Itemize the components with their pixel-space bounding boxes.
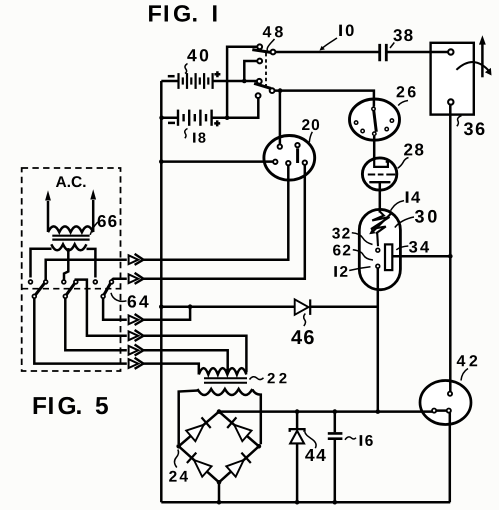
label 48 — [263, 26, 283, 50]
connector arrow 3 — [129, 315, 139, 324]
transformer 22 primary winding — [199, 368, 247, 374]
wire bridge 24 output line to socket 42 left pin — [219, 410, 432, 413]
wire tube 30 anode 34 to right rail — [392, 255, 450, 258]
wire switch 1 pivot to connector 6 — [34, 299, 127, 364]
box 36 vertical double arrow — [479, 35, 486, 77]
electrode 12 (circle) — [376, 264, 380, 268]
label 16 — [345, 435, 373, 446]
wire secondary right end to switch 3 contact — [87, 249, 96, 278]
filament 14 zigzag with arrow — [371, 212, 391, 247]
socket 42 body — [420, 381, 471, 425]
label A.C. — [56, 176, 86, 187]
switch bank 64 pivots — [32, 294, 105, 298]
socket 42 pins — [432, 392, 452, 413]
label 62 — [333, 245, 373, 260]
transformer 22 core — [204, 378, 247, 383]
connector arrow 5 — [129, 346, 139, 355]
transformer 66 primary winding — [48, 226, 93, 232]
rotary switch 26 lever — [374, 110, 377, 132]
wire switch 3 pivot to connector 3 — [103, 299, 127, 320]
FIG 5 dashed enclosure — [22, 168, 121, 371]
wire capacitor 38 to box 36 top pin — [387, 51, 447, 54]
tube 28 plate — [374, 157, 388, 167]
label 20 — [302, 119, 319, 142]
label 36 — [457, 116, 485, 136]
wire secondary left end to switch contact — [31, 249, 52, 278]
connector arrow 1 — [129, 255, 139, 264]
tube 28 grid (dashed) — [368, 174, 396, 176]
wire socket 42 left-center pin link — [435, 409, 448, 412]
label 34 — [396, 241, 429, 253]
box 36 body — [431, 43, 474, 115]
connector arrow 4 — [129, 331, 139, 340]
wire battery 18 right lead up to switch 48 lower throw contact — [212, 98, 259, 118]
wire switch 48 lower pole to rotary switch 26 top pin — [274, 91, 374, 107]
wire battery 18 left lead — [161, 116, 178, 119]
title FIG. 1 — [149, 5, 216, 22]
label 26 — [397, 86, 416, 105]
wire connector 4 to transformer 22 primary right end — [143, 336, 246, 373]
wire zener 44 top lead — [296, 412, 299, 429]
box 36 bottom pin — [448, 99, 453, 104]
wire connector 5 to transformer 22 primary tap — [143, 350, 227, 371]
bridge 24 diode lower-left — [194, 460, 212, 477]
tube 28 cathode — [369, 181, 390, 183]
wire connector 6 to transformer 22 primary left end — [143, 364, 198, 375]
wire 10 from switch 48 to capacitor 38 — [275, 51, 378, 54]
label 12 — [334, 266, 370, 277]
capacitor 16 — [328, 433, 343, 438]
label 42 — [457, 355, 477, 380]
transformer 22 secondary winding — [197, 389, 252, 395]
wire connector 3 riser to diode 46 line — [143, 307, 190, 320]
switch bank 64 mechanical link (dashed) — [22, 288, 120, 290]
box 36 rotation arc arrow — [456, 62, 491, 75]
wire left rail to socket 20 left pin — [161, 160, 273, 163]
tube 28 body — [362, 158, 396, 190]
label 38 — [390, 29, 413, 48]
wire switch 2 pivot to connector 5 — [65, 299, 127, 351]
switch 48 blade bottom pole — [254, 83, 271, 88]
box 36 top pin — [448, 49, 453, 54]
socket 20 index bar — [296, 148, 299, 163]
wire box 36 bottom pin down right rail to socket 42 top pin — [449, 105, 452, 391]
wire tube 28 cathode to tube 30 filament — [379, 182, 382, 213]
battery 40 — [168, 71, 221, 89]
electrode 62 (circle) — [376, 248, 380, 252]
switch 64-3 blade — [103, 283, 111, 297]
wire battery 40 right lead to switch 48 lower-left contact — [213, 80, 258, 83]
switch 48 blade top pole — [252, 50, 271, 53]
tube 30 envelope — [359, 209, 400, 289]
switch 64-1 blade — [34, 283, 45, 297]
label 64 — [111, 293, 149, 308]
wire secondary tap to switch 2 contact — [64, 251, 68, 280]
label 32 — [332, 228, 372, 245]
bridge 24 diode lower-right — [226, 460, 243, 477]
bridge 24 diode upper-right — [234, 425, 251, 441]
socket 20 body — [264, 136, 315, 181]
connector arrow 6 — [129, 359, 139, 368]
label 44 — [305, 432, 326, 461]
wire switch 48 middle throw contact lead — [244, 61, 257, 81]
wire socket 20 bottom-middle pin to connector 1 — [143, 166, 288, 260]
wire switch 1 throw to connector 1 — [46, 260, 127, 280]
capacitor 38 — [380, 44, 387, 61]
wire left rail — [160, 81, 163, 502]
rotary switch 26 pins — [354, 107, 393, 135]
connector arrow 2 — [129, 274, 139, 283]
transformer 66 secondary winding — [51, 244, 86, 250]
label 22 — [250, 373, 287, 383]
battery 18 — [168, 110, 220, 127]
wire diode 46 line from left rail to tube 30 cathode rail — [161, 305, 377, 308]
label 18 — [185, 129, 206, 143]
bridge 24 diamond — [179, 412, 259, 483]
switch 64-2 blade — [65, 283, 75, 297]
label 46 — [291, 314, 313, 345]
A.C. input arrow left — [45, 190, 51, 232]
title FIG. 5 — [34, 397, 108, 414]
wire transformer 22 secondary left lead to bridge — [179, 391, 198, 445]
wire socket 20 bottom-right pin to connector 2 — [143, 165, 304, 279]
wire battery 40 left lead — [161, 80, 178, 83]
wire socket 42 bottom lead — [449, 413, 452, 502]
wire socket 20 top-left pin riser — [279, 91, 282, 145]
label 28 — [398, 144, 424, 169]
wire battery 18 plus to switch 48 top-left contact via riser — [227, 47, 257, 118]
label 24 — [169, 450, 188, 482]
wire transformer 22 secondary right lead to bridge — [252, 390, 260, 445]
wire bottom rail — [161, 501, 450, 504]
label 14 — [391, 191, 421, 210]
FIG5 tap junction dot — [66, 248, 70, 252]
wire rotary switch 26 bottom pin to tube 28 — [373, 136, 376, 158]
diode 46 — [295, 299, 309, 314]
zener diode 44 — [290, 431, 304, 444]
switch 48 contacts — [256, 44, 276, 98]
label 66 — [90, 215, 116, 235]
wire bridge 24 bottom lead — [218, 484, 221, 502]
anode 34 (rect) — [385, 244, 392, 270]
label 40 — [185, 49, 208, 73]
wire tube 30 bottom lead down to output line — [377, 269, 380, 412]
label 30 — [395, 210, 437, 228]
transformer 66 core — [52, 236, 89, 240]
wire switch 3 throw to connector 2 — [112, 279, 127, 280]
label 10 leader arrow — [320, 24, 354, 50]
A.C. input arrow right — [90, 189, 96, 232]
wire capacitor 16 leads — [334, 412, 337, 503]
socket 20 pins — [273, 143, 307, 165]
switch 48 mechanical link (dashed) — [265, 53, 267, 87]
wire zener 44 bottom lead — [296, 443, 299, 502]
bridge 24 diode upper-left — [186, 425, 204, 441]
switch bank 64 contacts — [29, 280, 114, 284]
rotary switch 26 body — [350, 99, 400, 140]
wire switch 2 throw to connector 4 — [76, 280, 127, 336]
